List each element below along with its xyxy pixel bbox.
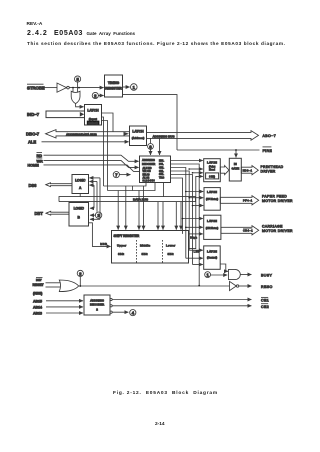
svg-text:MOTOR DRIVER: MOTOR DRIVER [262,229,293,233]
latch L6 (control) [204,246,221,269]
svg-text:ADDRESS BUS: ADDRESS BUS [153,135,175,139]
bus CR4~1 hollow arrow to CR driver [221,226,259,235]
wire latch column stubs: print head latch [189,169,203,173]
svg-text:PAPER FEED: PAPER FEED [262,195,287,199]
latch L5 (CR motor) [204,215,221,239]
svg-text:1: 1 [133,85,136,90]
svg-text:CE2: CE2 [261,305,269,309]
gate U4 BUSY AND gate [229,269,241,279]
svg-text:2: 2 [79,271,82,276]
node 3 circle at BUSY gate [205,272,227,278]
bus IND~7 to L1 [46,111,85,118]
svg-text:CARRIAGE: CARRIAGE [262,225,283,229]
OR gate G2 (strobe latch clock) [71,91,80,103]
svg-text:5: 5 [76,77,79,82]
svg-text:REGISTER: REGISTER [105,87,122,91]
svg-text:AB13: AB13 [33,312,42,316]
svg-text:HD9~1: HD9~1 [243,170,253,173]
node RD label [37,153,43,158]
svg-text:LATCH: LATCH [207,219,218,223]
svg-text:(PF Motor): (PF Motor) [206,198,218,201]
node 2 circle [92,92,98,98]
caption [113,391,218,396]
logic block A [72,175,89,194]
svg-text:DBT: DBT [35,211,44,216]
header text [27,22,43,27]
svg-text:DECODER: DECODER [142,162,155,166]
wire LOGIC A to data bus [79,194,81,197]
svg-text:(Address): (Address) [132,136,145,140]
svg-text:TIMING: TIMING [108,81,120,85]
bus ADDRESS/DATA (hollow left arrow) [46,130,130,138]
wire LOGIC A feeds from data bus [99,178,101,219]
wire AB15 to decoder D2 [46,300,83,302]
wire FIRE drop into IN GATE [235,150,237,157]
wire address bus drop to decoder D1 [159,138,161,155]
svg-text:(RESI): (RESI) [33,291,42,295]
svg-text:RD: RD [37,154,43,158]
svg-text:ABO~7: ABO~7 [263,134,277,138]
svg-text:LATCH: LATCH [207,250,218,254]
node 7 circle [113,172,119,178]
svg-text:ALE: ALE [28,140,36,145]
svg-text:HOME: HOME [28,164,40,168]
latch L4 (PF motor) [204,188,220,211]
address decoder D2 [84,295,110,315]
wire U1 bottom to FIRE net [123,95,178,150]
wire latch column stubs: PF latch [186,192,203,206]
wire L1 output onto address/data bus [102,113,114,132]
wire decoder D1 bottom staircase b [108,183,156,191]
svg-text:PF4~1: PF4~1 [243,199,253,203]
wire WR to decoder D1 [44,160,139,167]
svg-text:LATCH: LATCH [132,130,144,134]
wire inputs to LOGIC A [89,177,100,179]
svg-text:Upper: Upper [117,244,127,248]
wire L1 output down to data bus (a) [102,117,104,186]
shift register U2 [112,231,189,264]
wire decoder D1 bottom staircase a [104,183,147,187]
wire BUSY out [241,274,252,276]
node PRINTHEAD DRIVER label [261,165,284,174]
logic block B [69,203,89,227]
svg-text:B: B [78,216,81,220]
svg-text:BUSY: BUSY [261,274,273,278]
node FIRE label [263,147,273,153]
svg-text:DECODER: DECODER [90,303,105,307]
svg-text:LATCH: LATCH [207,161,218,165]
bus DBT hollow arrow from LOGIC B [46,211,69,215]
wire decoder D1 bottom staircase c [163,183,165,197]
node WR label [37,158,44,163]
svg-text:CE1: CE1 [261,299,269,303]
buffer U5 RESO driver [230,281,239,290]
wire RD to decoder D1 [44,155,139,161]
svg-text:ADDRESS/DATA BUS: ADDRESS/DATA BUS [66,132,97,136]
svg-text:0 1 2 3 4 5 6: 0 1 2 3 4 5 6 [143,180,156,183]
svg-text:7: 7 [115,173,118,178]
svg-text:RESET: RESET [33,283,45,287]
svg-text:AB15: AB15 [33,299,42,303]
svg-text:STROBE: STROBE [27,86,45,91]
bus PF4~1 hollow arrow to PF driver [220,196,258,205]
node CARRIAGE MOTOR DRIVER label [262,225,293,234]
wire D2 to node 4 [110,311,112,313]
svg-text:A1 A2: A1 A2 [143,177,150,180]
junction dots latch column [182,168,200,286]
svg-text:2: 2 [94,94,97,99]
svg-text:LATCH: LATCH [87,109,99,113]
node CE2 label [261,304,269,309]
node CE1 label [261,297,269,302]
node 2 circle at reset gate [77,270,83,286]
wire FIRE horizontal [177,149,260,151]
svg-text:IND~7: IND~7 [27,112,40,117]
svg-text:8Bit: 8Bit [142,252,148,256]
wire STROBE to inverter [45,87,58,89]
node PAPER FEED MOTOR DRIVER label [262,195,293,203]
svg-text:Select): Select) [88,121,98,125]
svg-text:(Control): (Control) [207,256,217,259]
svg-text:4: 4 [132,311,135,316]
latch L3 (print head data) [204,159,221,182]
wire data bus taps to shift register [118,186,181,230]
node STROBE input label [27,84,45,90]
wire ALE to latch L2 [42,141,129,143]
gate U3 IN GATE [229,158,241,181]
svg-text:FIRE: FIRE [263,149,273,153]
svg-text:TRG: TRG [159,177,164,180]
wire inputs to LOGIC B [90,207,94,209]
wire L6 to BUSY gate [220,264,228,271]
bus DS6 hollow arrow from LOGIC A [46,183,72,187]
bus ADDRESS (hollow right arrow) to ABO~7 [147,131,259,141]
svg-text:CR4~1: CR4~1 [243,229,253,233]
svg-text:8Bit: 8Bit [168,252,174,256]
wire RESO out [239,285,252,287]
latch L1 (input select) [85,105,102,126]
svg-text:Lower: Lower [166,244,176,248]
wire G2 output to latch L1 [76,104,84,107]
wire L1 output down to data bus (b) [102,121,108,191]
wire decoder D1 outputs to latch column [171,161,203,286]
wire AB13 to decoder D2 [46,312,83,314]
svg-text:DATA BUS: DATA BUS [133,198,148,202]
svg-text:LATCH: LATCH [207,190,218,194]
wire LOGIC B to shift register MSB [89,223,111,247]
svg-text:High: High [190,236,197,240]
svg-text:Middle: Middle [140,244,151,248]
address decoder D1 [140,156,171,183]
svg-text:Head: Head [209,169,215,172]
svg-text:MOTOR DRIVER: MOTOR DRIVER [262,199,293,203]
svg-text:DBO-7: DBO-7 [26,131,40,136]
bus HD9~1 hollow arrow to printhead driver [241,166,258,175]
svg-text:PRINTHEAD: PRINTHEAD [261,165,284,169]
wire reset net [79,285,230,287]
svg-text:MSB: MSB [100,242,107,246]
node 3 circle at LOGIC B [90,212,102,218]
wire node 2 to U1 [99,95,104,97]
wire RESET to reset gate [46,286,61,288]
wire D2 to CE2 [110,305,112,307]
wire INIT to reset gate [46,282,61,284]
wire latch column stubs: CR latch [183,219,203,234]
wire left gate input [72,88,74,93]
svg-text:2: 2 [96,308,98,312]
wire AB14 to decoder D2 [46,306,83,308]
svg-text:DRIVER: DRIVER [261,170,276,174]
inverter G1 [57,83,69,92]
svg-text:A: A [79,186,82,190]
wire latch column stubs: control latch [186,250,203,264]
gate U6 reset OR gate [59,280,78,292]
junction tick [132,186,134,191]
svg-text:RESO: RESO [261,285,273,289]
node INIT label [36,278,43,283]
svg-text:DS6: DS6 [29,183,38,188]
svg-text:SHIFT REGISTER: SHIFT REGISTER [114,234,140,238]
svg-text:9 Bit): 9 Bit) [209,175,215,178]
svg-text:ADDRESS: ADDRESS [142,158,155,162]
node 4 circle [130,310,136,316]
svg-text:LOGIC: LOGIC [74,207,85,211]
junction dots on strobe wire [72,87,80,89]
svg-text:AB14: AB14 [33,306,42,310]
wire HOME to decoder D1 [44,165,140,172]
node 6 circle under L2 [148,138,154,155]
node 1 circle [131,84,138,91]
timing register U1 [105,75,123,97]
svg-text:(CR Motor): (CR Motor) [206,227,219,230]
bus DATA BUS band [59,197,196,202]
svg-text:8Bit: 8Bit [118,252,124,256]
wire U1 to node 1 [123,86,130,88]
svg-text:LOGIC: LOGIC [75,178,86,182]
latch L2 (address) [130,126,147,146]
wire node 7 to decoder D1 [119,174,130,176]
wire node5 to gate input [77,82,79,92]
wire D2 to CE1 [110,298,112,300]
svg-text:GATE: GATE [231,166,239,170]
svg-text:INIT: INIT [36,278,42,282]
page number [155,422,165,427]
wire shift register LSB serial out to print head latch [189,176,203,253]
bus L3 to IN GATE hollow arrow [220,166,229,175]
wire inverter to timing register [69,87,103,89]
node 5 circle [75,76,81,82]
